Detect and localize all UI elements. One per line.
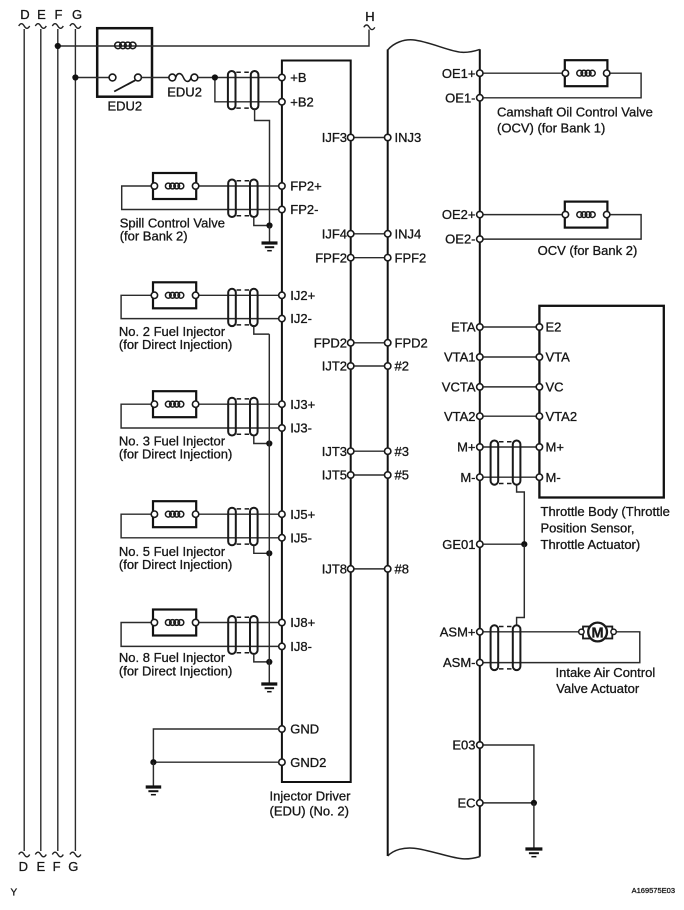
ECM torn top edge <box>388 40 480 53</box>
svg-text:FPF2: FPF2 <box>395 250 427 265</box>
junction node after fuse <box>212 74 218 80</box>
svg-text:E: E <box>37 7 46 22</box>
wire relay switch to fuse <box>141 77 169 79</box>
injector: No. 5 Fuel Injector box <box>153 501 196 527</box>
svg-text:(for Direct Injection): (for Direct Injection) <box>119 447 232 462</box>
fuse EDU2 <box>169 74 198 82</box>
label No. 3 Fuel Injector <box>119 434 232 462</box>
svg-text:IJF4: IJF4 <box>322 226 347 241</box>
injector: No. 3 Fuel Injector box <box>153 391 196 417</box>
label Intake Air Control Valve Actuator <box>556 665 656 696</box>
svg-text:#8: #8 <box>395 562 409 577</box>
pin VTA2 (ECM right) <box>444 409 483 424</box>
pin FPD2 (ECM left) <box>385 335 428 350</box>
pin IJ8- (EDU2) <box>279 639 312 654</box>
svg-text:IJT5: IJT5 <box>322 468 347 483</box>
svg-text:D: D <box>20 7 29 22</box>
svg-text:#3: #3 <box>395 444 409 459</box>
label Y (page reference) <box>11 888 18 899</box>
fuse label EDU2 <box>167 85 202 100</box>
OCV bank1 solenoid box <box>565 60 608 86</box>
svg-text:OE1-: OE1- <box>445 90 475 105</box>
ground stem (ECM ground) <box>533 803 535 848</box>
svg-text:(for Direct Injection): (for Direct Injection) <box>119 337 232 352</box>
svg-text:IJ8-: IJ8- <box>290 639 312 654</box>
svg-text:G: G <box>68 859 78 874</box>
pin FPD2 (EDU2) <box>314 335 354 350</box>
svg-text:Throttle Actuator): Throttle Actuator) <box>541 537 641 552</box>
shield drain wire (ASM cable) from GE01 <box>517 544 525 625</box>
svg-text:(OCV) (for Bank 1): (OCV) (for Bank 1) <box>497 121 605 136</box>
svg-text:M-: M- <box>546 470 561 485</box>
svg-text:E03: E03 <box>452 738 475 753</box>
svg-text:IJ2-: IJ2- <box>290 311 312 326</box>
pin #8 (ECM left) <box>385 562 409 577</box>
pin M+ (throttle body) <box>536 440 564 455</box>
svg-text:Injector Driver: Injector Driver <box>270 789 352 804</box>
pin IJ3- (EDU2) <box>279 421 312 436</box>
svg-text:A169575E03: A169575E03 <box>632 886 675 895</box>
wire OCV bank2 return to OE2- <box>483 215 641 240</box>
svg-text:IJT8: IJT8 <box>322 562 347 577</box>
wire OCV bank1 return to OE1- <box>483 73 641 98</box>
shielded cable for IJ8+/IJ8- <box>228 616 257 654</box>
svg-text:+B: +B <box>290 70 306 85</box>
label No. 5 Fuel Injector <box>119 544 232 572</box>
svg-text:INJ3: INJ3 <box>395 130 422 145</box>
wire IJT2 to #2 <box>354 365 385 367</box>
pin ASM- (ECM right) <box>443 655 483 670</box>
pin IJ2+ (EDU2) <box>279 288 316 303</box>
ground stem (EDU2 grounds) <box>152 762 154 786</box>
svg-text:EDU2: EDU2 <box>107 99 142 114</box>
wire GE01 <box>483 543 524 545</box>
svg-text:M+: M+ <box>457 440 475 455</box>
pin VTA2 (throttle body) <box>536 409 577 424</box>
svg-text:(for Bank 2): (for Bank 2) <box>120 229 188 244</box>
svg-text:IJ3+: IJ3+ <box>290 397 315 412</box>
ground (top shield drains) <box>262 243 278 251</box>
wire EC <box>483 802 534 804</box>
rail D (vertical wire) <box>19 7 30 874</box>
junction E03/EC <box>531 800 537 806</box>
ground (injector shield drains) <box>261 684 277 692</box>
pin IJF4 (EDU2) <box>322 226 354 241</box>
pin E03 (ECM right) <box>452 738 483 753</box>
label Camshaft Oil Control Valve (OCV) (for Bank 1) <box>497 105 653 136</box>
wire VTA1 to VTA (throttle body) <box>483 356 536 358</box>
pin +B2 (EDU2) <box>279 94 314 109</box>
injector driver EDU2 box (EDU No. 2) <box>282 61 351 783</box>
rail F (vertical wire) <box>52 7 63 874</box>
spill valve coil <box>165 183 183 189</box>
pin +B (EDU2) <box>279 70 307 85</box>
svg-text:GND2: GND2 <box>290 755 326 770</box>
wire OE2+ to OCV bank2 <box>483 214 562 216</box>
svg-text:Y: Y <box>11 888 18 899</box>
solenoid coil: Spill Control Valve (for Bank 2) <box>153 173 196 199</box>
pin VTA1 (ECM right) <box>444 350 483 365</box>
shielded cable for M+/M- <box>491 441 521 485</box>
pin ASM+ (ECM right) <box>440 624 483 639</box>
svg-text:FPD2: FPD2 <box>395 335 428 350</box>
wire FPD2 to FPD2 <box>354 342 385 344</box>
wire IJT3 to #3 <box>354 450 385 452</box>
shield drain wire (M cable) to GE01 <box>517 485 525 544</box>
svg-text:IJ5-: IJ5- <box>290 530 312 545</box>
pin IJT2 (EDU2) <box>322 359 354 374</box>
junction on rail F <box>55 43 61 49</box>
svg-text:VTA2: VTA2 <box>444 409 476 424</box>
shielded cable for IJ3+/IJ3- <box>228 398 257 436</box>
pin OE2+ (ECM right) <box>442 207 483 222</box>
injector 8 terminals <box>151 619 199 625</box>
junction of shield drains <box>266 222 272 228</box>
svg-text:VTA1: VTA1 <box>444 350 476 365</box>
svg-text:OCV (for Bank 2): OCV (for Bank 2) <box>538 243 638 258</box>
svg-text:IJ5+: IJ5+ <box>290 507 315 522</box>
wire E03 <box>483 745 534 803</box>
pin #5 (ECM left) <box>385 468 409 483</box>
wire injector 2 to IJ2- (via left loop) <box>121 295 279 318</box>
svg-text:Position Sensor,: Position Sensor, <box>541 521 635 536</box>
wire from rail F to relay coil and on to node H <box>58 30 369 47</box>
pin OE2- (ECM right) <box>445 232 483 247</box>
svg-text:M+: M+ <box>546 440 564 455</box>
wire fuse to +B pin <box>198 77 279 79</box>
svg-text:EC: EC <box>457 796 475 811</box>
ECM body left edge <box>387 50 389 857</box>
svg-text:OE1+: OE1+ <box>442 66 476 81</box>
svg-text:IJT3: IJT3 <box>322 444 347 459</box>
pin INJ3 (ECM left) <box>385 130 422 145</box>
svg-text:GND: GND <box>290 722 319 737</box>
svg-text:IJT2: IJT2 <box>322 359 347 374</box>
wire injector 2 to IJ2+ <box>199 294 279 296</box>
svg-text:Camshaft Oil Control Valve: Camshaft Oil Control Valve <box>497 105 653 120</box>
wire IJT8 to #8 <box>354 568 385 570</box>
svg-text:IJ2+: IJ2+ <box>290 288 315 303</box>
shield drain rail (injectors) <box>268 334 270 682</box>
pin E2 (throttle body) <box>536 320 561 335</box>
wire injector 8 to IJ8+ <box>199 622 279 624</box>
pin IJ5+ (EDU2) <box>279 507 316 522</box>
svg-text:VC: VC <box>546 380 564 395</box>
svg-text:H: H <box>365 9 374 24</box>
label Spill Control Valve <box>120 216 225 244</box>
svg-text:#2: #2 <box>395 359 409 374</box>
svg-text:IJ8+: IJ8+ <box>290 615 315 630</box>
OCV bank2 solenoid box <box>565 202 608 228</box>
injector: No. 2 Fuel Injector box <box>153 282 196 308</box>
pin VC (throttle body) <box>536 380 563 395</box>
ECM torn bottom edge <box>388 848 480 859</box>
pin IJ5- (EDU2) <box>279 530 312 545</box>
junction of injector 3 shield drain <box>266 440 272 446</box>
wire spill valve to FP2- (via left loop) <box>122 186 279 210</box>
svg-text:EDU2: EDU2 <box>167 85 202 100</box>
injector 3 coil <box>165 401 183 407</box>
ECM body right edge <box>479 49 481 856</box>
shield drain wire (injector 3) <box>254 436 269 443</box>
wire FPF2 to FPF2 <box>354 257 385 259</box>
junction GND/GND2 <box>150 759 156 765</box>
pin IJ8+ (EDU2) <box>279 615 316 630</box>
label Injector Driver (EDU) (No. 2) <box>270 789 352 819</box>
pin M- (ECM right) <box>460 470 483 485</box>
svg-text:Throttle Body (Throttle: Throttle Body (Throttle <box>541 504 670 519</box>
relay switch contacts and blade <box>109 74 141 91</box>
node H <box>364 9 375 30</box>
pin M+ (ECM right) <box>457 440 483 455</box>
wire motor return to ASM- <box>483 632 640 663</box>
pin FPF2 (ECM left) <box>385 250 427 265</box>
svg-text:M-: M- <box>460 470 475 485</box>
shield drain wire (injector 2) <box>254 327 269 334</box>
wire IJF3 to INJ3 <box>354 137 385 139</box>
junction GE01 / shield drains <box>521 541 527 547</box>
wire junction down to +B2 pin <box>215 78 279 102</box>
rail G (vertical wire) <box>68 7 82 874</box>
rail E (vertical wire) <box>35 7 46 874</box>
wire injector 8 to IJ8- (via left loop) <box>121 623 279 647</box>
svg-text:F: F <box>53 859 61 874</box>
shielded cable for IJ2+/IJ2- <box>228 289 257 326</box>
shielded cable for +B/+B2 <box>228 71 259 109</box>
relay EDU2 box <box>97 28 152 97</box>
shielded cable for FP2+/FP2- <box>228 180 257 218</box>
pin EC (ECM right) <box>457 796 483 811</box>
svg-text:GE01: GE01 <box>442 537 475 552</box>
label No. 2 Fuel Injector <box>119 324 232 352</box>
pin OE1+ (ECM right) <box>442 66 483 81</box>
wire injector 5 to IJ5+ <box>199 513 279 515</box>
svg-text:FPD2: FPD2 <box>314 335 347 350</box>
shield drain wire (injector 8) <box>254 655 269 662</box>
wire VCTA to VC (throttle body) <box>483 386 536 388</box>
svg-text:(for Direct Injection): (for Direct Injection) <box>119 664 232 679</box>
svg-text:(EDU) (No. 2): (EDU) (No. 2) <box>270 804 349 819</box>
svg-text:VCTA: VCTA <box>442 380 476 395</box>
svg-text:OE2+: OE2+ <box>442 207 476 222</box>
pin GND2 (EDU2) <box>279 755 327 770</box>
motor M (intake air control valve actuator) <box>579 623 617 642</box>
pin GE01 (ECM right) <box>442 537 483 552</box>
shielded cable for IJ5+/IJ5- <box>228 508 257 546</box>
svg-text:Valve Actuator: Valve Actuator <box>556 681 640 696</box>
wire GND2 to ground <box>153 761 278 763</box>
wire spill valve to FP2+ <box>199 185 279 187</box>
OCV bank2 coil <box>577 212 595 218</box>
pin IJT8 (EDU2) <box>322 562 354 577</box>
svg-text:ASM-: ASM- <box>443 655 476 670</box>
spill valve terminals <box>151 183 199 189</box>
pin OE1- (ECM right) <box>445 90 483 105</box>
svg-text:#5: #5 <box>395 468 409 483</box>
svg-text:(for Direct Injection): (for Direct Injection) <box>119 557 232 572</box>
shielded cable for ASM+/ASM- <box>491 625 521 670</box>
wire ASM+ to motor <box>483 631 579 633</box>
shield drain wire (+B cable) <box>255 109 270 225</box>
injector 5 coil <box>165 511 183 517</box>
svg-text:INJ4: INJ4 <box>395 226 422 241</box>
shield drain wire (FP2 cable) <box>254 217 270 226</box>
pin VCTA (ECM right) <box>442 380 483 395</box>
pin ETA (ECM right) <box>451 320 483 335</box>
OCV bank1 coil <box>577 70 595 76</box>
junction of injector 5 shield drain <box>266 550 272 556</box>
drawing code A169575E03 <box>632 886 675 895</box>
wire M- to M- (throttle body) <box>483 476 536 478</box>
pin FP2- (EDU2) <box>279 202 319 217</box>
wire ETA to E2 (throttle body) <box>483 326 536 328</box>
wire VTA2 to VTA2 (throttle body) <box>483 415 536 417</box>
wire injector 3 to IJ3+ <box>199 403 279 405</box>
svg-text:ASM+: ASM+ <box>440 624 476 639</box>
pin #2 (ECM left) <box>385 359 409 374</box>
svg-text:M: M <box>592 625 604 641</box>
pin IJT5 (EDU2) <box>322 468 354 483</box>
pin FPF2 (EDU2) <box>315 250 354 265</box>
svg-text:IJ3-: IJ3- <box>290 421 312 436</box>
wire injector 3 to IJ3- (via left loop) <box>121 404 279 428</box>
svg-text:OE2-: OE2- <box>445 232 475 247</box>
svg-text:FP2-: FP2- <box>290 202 318 217</box>
svg-text:G: G <box>72 7 82 22</box>
label Throttle Body <box>541 504 670 552</box>
svg-text:FP2+: FP2+ <box>290 179 321 194</box>
OCV bank2 terminals <box>562 211 610 217</box>
wire IJT5 to #5 <box>354 474 385 476</box>
wire OE1+ to OCV bank1 <box>483 72 562 74</box>
pin IJ2- (EDU2) <box>279 311 312 326</box>
pin M- (throttle body) <box>536 470 560 485</box>
OCV bank1 terminals <box>562 70 610 76</box>
wire M+ to M+ (throttle body) <box>483 446 536 448</box>
pin IJT3 (EDU2) <box>322 444 354 459</box>
pin IJF3 (EDU2) <box>322 130 354 145</box>
svg-text:E2: E2 <box>546 320 562 335</box>
svg-text:Intake Air Control: Intake Air Control <box>556 665 656 680</box>
relay label EDU2 <box>107 99 142 114</box>
svg-text:D: D <box>19 859 28 874</box>
svg-text:No. 8 Fuel Injector: No. 8 Fuel Injector <box>119 650 226 665</box>
svg-text:E: E <box>36 859 45 874</box>
label No. 8 Fuel Injector <box>119 650 232 679</box>
wire from rail G to relay switch <box>75 77 109 79</box>
svg-text:+B2: +B2 <box>290 94 314 109</box>
svg-text:VTA2: VTA2 <box>546 409 578 424</box>
ground (EDU2 GND/GND2) <box>146 787 162 795</box>
junction of injector 8 shield drain <box>266 659 272 665</box>
junction on rail G <box>72 74 78 80</box>
pin GND (EDU2) <box>279 722 319 737</box>
injector: No. 8 Fuel Injector box <box>153 610 196 636</box>
shield drain wire (injector 5) <box>254 546 269 553</box>
injector 2 coil <box>165 292 183 298</box>
label OCV (for Bank 2) <box>538 243 638 258</box>
throttle body box <box>539 306 663 498</box>
pin INJ4 (ECM left) <box>385 226 422 241</box>
pin VTA (throttle body) <box>536 350 570 365</box>
pin IJ3+ (EDU2) <box>279 397 316 412</box>
svg-text:ETA: ETA <box>451 320 476 335</box>
injector 5 terminals <box>151 511 199 517</box>
ground (ECM E03/EC) <box>525 849 542 857</box>
wire GND to ground <box>153 729 278 762</box>
svg-text:IJF3: IJF3 <box>322 130 347 145</box>
svg-text:VTA: VTA <box>546 350 571 365</box>
relay coil <box>115 42 136 49</box>
svg-text:FPF2: FPF2 <box>315 250 347 265</box>
svg-text:F: F <box>55 7 63 22</box>
injector 3 terminals <box>151 401 199 407</box>
pin #3 (ECM left) <box>385 444 409 459</box>
pin FP2+ (EDU2) <box>279 179 322 194</box>
ground stem (top shield ground) <box>269 226 271 243</box>
wire injector 5 to IJ5- (via left loop) <box>121 514 279 538</box>
injector 2 terminals <box>151 292 199 298</box>
wire IJF4 to INJ4 <box>354 233 385 235</box>
injector 8 coil <box>165 620 183 626</box>
